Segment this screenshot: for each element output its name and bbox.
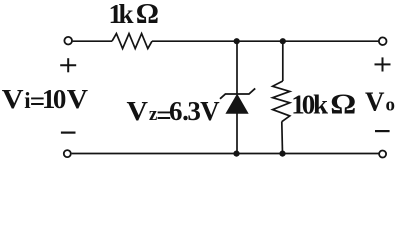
- node junction bottom at 10k: [279, 151, 285, 157]
- svg-text:3: 3: [187, 96, 201, 126]
- node junction top at zener: [234, 38, 240, 44]
- svg-text:Ω: Ω: [330, 88, 356, 120]
- terminal bottom-left: [64, 150, 71, 157]
- terminal top-left: [64, 37, 72, 45]
- svg-text:V: V: [365, 86, 385, 116]
- resistor R1 1k ohm zigzag: [112, 34, 152, 49]
- wire zener anode: [236, 113, 238, 154]
- svg-text:V: V: [127, 97, 149, 126]
- terminal bottom-right: [379, 151, 386, 158]
- wire 10k bottom: [281, 122, 284, 154]
- terminal top-right: [379, 37, 387, 45]
- resistor R2 10k ohm zigzag: [273, 81, 290, 122]
- minus sign input: [61, 132, 76, 134]
- bottom wire: [72, 153, 379, 155]
- zener diode D1 triangle: [226, 95, 248, 114]
- svg-text:k: k: [119, 0, 134, 29]
- wire 10k top: [282, 41, 284, 81]
- wire top-left to resistor R1: [73, 40, 112, 42]
- svg-text:0: 0: [53, 84, 67, 114]
- plus sign output: [375, 57, 391, 71]
- svg-text:V: V: [200, 96, 220, 126]
- node junction bottom at zener: [233, 151, 239, 157]
- svg-text:k: k: [313, 89, 328, 119]
- wire resistor R1 to top-right terminal: [152, 40, 379, 42]
- plus sign input: [60, 58, 76, 72]
- wire zener cathode: [236, 41, 238, 94]
- svg-text:V: V: [2, 84, 24, 114]
- svg-text:Ω: Ω: [136, 0, 159, 30]
- minus sign output: [375, 130, 390, 132]
- svg-text:V: V: [67, 85, 89, 115]
- svg-text:6: 6: [169, 96, 183, 126]
- node junction top at 10k: [280, 38, 286, 44]
- zener diode D1 cathode bar with bent ends: [220, 88, 255, 98]
- svg-text:o: o: [386, 94, 396, 115]
